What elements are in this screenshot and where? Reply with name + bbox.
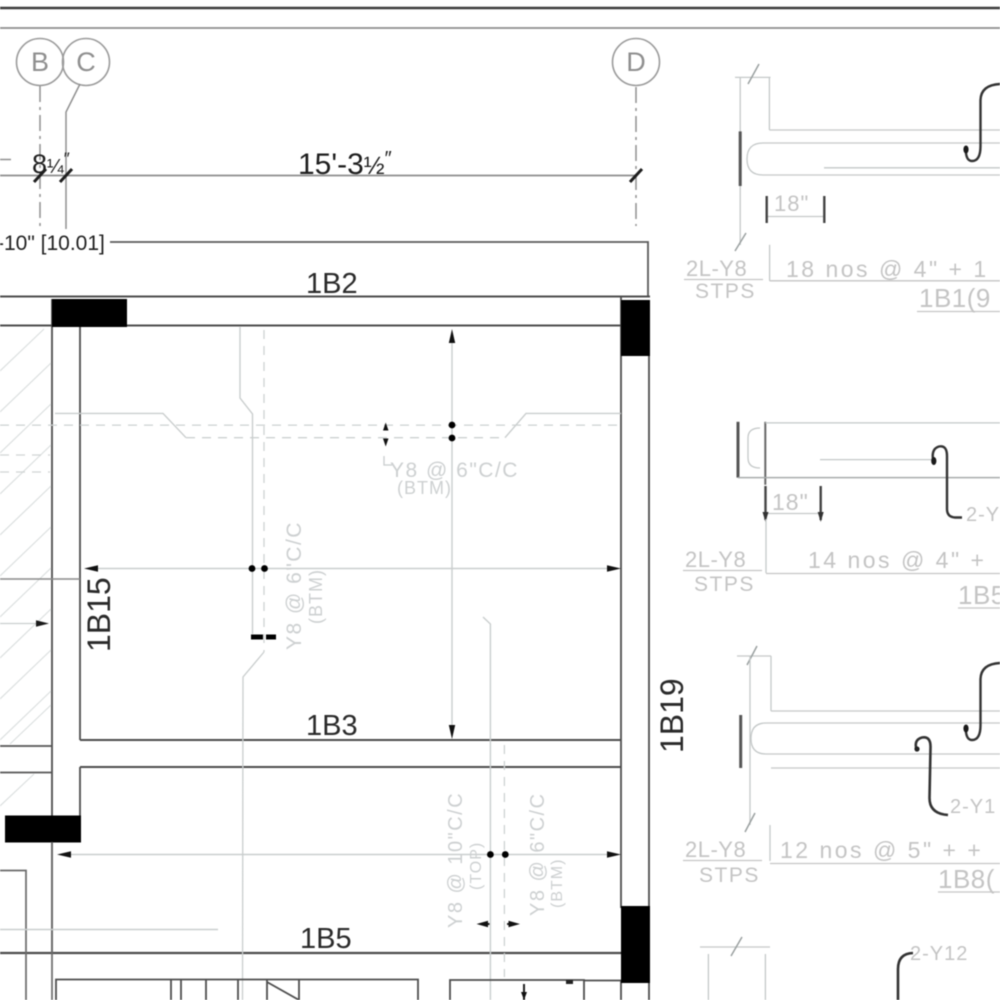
detail 4 witness tick [731, 937, 742, 956]
grid bubble C [63, 39, 110, 86]
svg-text:18": 18" [774, 191, 809, 216]
beam 1B19 right edge lower [648, 981, 650, 1000]
grid line C leader [66, 84, 80, 229]
detail 4 hook bar (dark) [898, 953, 913, 1000]
svg-text:1B5(9: 1B5(9 [958, 580, 1000, 610]
dim tick at B [34, 169, 46, 182]
svg-text:1B1(9: 1B1(9 [919, 283, 991, 313]
grid bubble D [613, 39, 660, 86]
detail 1 leader vertical [769, 245, 771, 281]
detail 3 depth line [749, 656, 751, 825]
beam 1B15 left edge [51, 299, 53, 953]
svg-text:2L-Y8: 2L-Y8 [685, 837, 746, 862]
beam 1B19 right edge [648, 356, 650, 908]
lower-left room corner [0, 871, 26, 1000]
column bottom left (filled) [5, 816, 81, 843]
detail 3 top reinforcement bar outline [751, 723, 1000, 754]
detail 1 witness tick top [748, 64, 759, 84]
slab top bar line horizontal (upper panel) [55, 413, 186, 437]
detail 2 hook bar (dark) [933, 446, 962, 517]
detail 1 beam top line [769, 129, 1000, 131]
detail 3 witness tick bottom [745, 813, 755, 832]
detail 4 witness line top [700, 946, 770, 948]
svg-text:2-Y: 2-Y [966, 504, 1000, 526]
detail 2 support bar left (dark) [737, 422, 740, 478]
beam 1B3 left stub bottom [0, 772, 52, 774]
svg-text:2L-Y8: 2L-Y8 [686, 256, 747, 281]
beam 1B15 right edge [79, 327, 81, 740]
beam 1B2 bottom line [0, 325, 650, 327]
detail 1 second bar line [824, 167, 1000, 169]
bottom wall row right rect [450, 980, 584, 1000]
svg-text:1B15: 1B15 [81, 577, 117, 652]
border line top [0, 7, 1000, 9]
svg-text:D: D [626, 47, 646, 77]
grid bubble B [17, 39, 64, 86]
slab top bar line vertical (upper panel) [240, 327, 253, 634]
grid line B leader [39, 86, 41, 229]
svg-text:1B3: 1B3 [306, 710, 358, 742]
svg-text:15'-3½″: 15'-3½″ [298, 148, 392, 181]
bottom wall row left rect [56, 980, 418, 1000]
stub line left edge [0, 159, 11, 161]
bottom wall row partitions [170, 980, 172, 1000]
dim tick at D [630, 169, 642, 182]
detail 1 stirrup spacing dim 18" [767, 216, 825, 218]
label Y8 @ 6 C/C (BTM) horizontal [384, 456, 392, 465]
slab centerline horizontal dashed (upper panel) [0, 424, 621, 426]
svg-text:14 nos @ 4" +: 14 nos @ 4" + [808, 547, 986, 573]
detail 2 leader vertical [765, 519, 767, 573]
beam 1B3 bottom line [80, 766, 621, 768]
beam 1B15 right edge lower [79, 767, 81, 816]
bottom row down arrow [523, 984, 525, 1000]
detail 3 witness line top [737, 655, 771, 657]
detail 3 hook bar middle (dark) [916, 737, 948, 815]
svg-text:(BTM): (BTM) [306, 569, 326, 624]
detail 2 beam bottom line [738, 477, 1000, 479]
beam 1B19 left edge lower [620, 981, 622, 1000]
svg-text:2-Y1: 2-Y1 [950, 796, 996, 818]
beam 1B3 top line [80, 739, 621, 741]
svg-text:1B8(: 1B8( [938, 864, 995, 894]
column at D grid (top right, filled) [621, 300, 650, 356]
detail 1 beam left edge [768, 77, 770, 130]
detail 3 witness tick top [747, 646, 757, 665]
left area horizontal line [0, 578, 80, 580]
svg-text:Y8 @ 10"C/C: Y8 @ 10"C/C [445, 792, 467, 928]
slab centerline vertical dashed (upper panel) [263, 330, 265, 652]
detail 1 hook bar (dark) [966, 84, 1000, 161]
detail 1 witness line top [735, 76, 771, 78]
beam 1B2 top line [0, 296, 650, 298]
beam 1B5 top line [0, 952, 621, 954]
lower-left wall line [51, 842, 53, 1000]
hatch lines left area [0, 329, 51, 806]
detail 2 stirrup spacing dim 18" [765, 513, 821, 515]
detail 3 hook bar right (dark) [966, 663, 1000, 740]
svg-text:12 nos @ 5" + +: 12 nos @ 5" + + [780, 837, 983, 863]
bottom wall segment to column [584, 980, 621, 982]
svg-text:1B19: 1B19 [654, 678, 690, 753]
detail 2 beam top line [765, 422, 1000, 424]
svg-text:18": 18" [772, 489, 809, 515]
column at B/C grid (top left, filled) [52, 299, 127, 327]
detail 3 beam bottom line [771, 767, 1000, 769]
detail 3 leader vertical [769, 825, 771, 861]
detail 3 support bar (dark) [739, 715, 742, 768]
detail 2 beam left edge (dark) [764, 422, 766, 485]
bar end tick (black double dash) [251, 635, 263, 640]
detail 4 beam left edge [764, 954, 766, 1000]
detail 1 witness tick bottom [735, 233, 746, 251]
paired arrow marks on centerlines [383, 423, 389, 431]
border line inner [0, 27, 1000, 29]
detail 1 depth line [739, 77, 741, 245]
svg-text:18 nos @ 4" + 1: 18 nos @ 4" + 1 [786, 256, 989, 282]
extent line horizontal with arrows (upper panel) [95, 568, 610, 570]
detail 3 beam top line [771, 710, 1000, 712]
svg-text:1B5: 1B5 [300, 923, 352, 955]
dimension line [10.01] [110, 242, 648, 297]
svg-text:2L-Y8: 2L-Y8 [685, 547, 746, 572]
lower panel centerline vertical dashed [503, 745, 505, 977]
svg-text:8¼″: 8¼″ [32, 149, 70, 179]
detail 1 top reinforcement bar outline [747, 143, 1000, 175]
svg-text:C: C [76, 47, 96, 77]
svg-text:STPS: STPS [695, 280, 756, 303]
lower panel bar line vertical [483, 617, 490, 1000]
svg-text:2-Y12: 2-Y12 [910, 943, 968, 965]
extent line vertical with arrows (upper panel) [451, 340, 453, 728]
detail 1 support bar (dark) [739, 131, 742, 186]
beam 1B19 left edge [620, 296, 622, 908]
extent line horizontal with arrows (lower panel) [68, 854, 610, 856]
detail 4 depth line [707, 954, 709, 1000]
beam 1B3 left stub top [0, 745, 52, 747]
detail 2 second bar line [820, 459, 934, 461]
detail 2 top bar end cap [748, 428, 760, 468]
svg-text:STPS: STPS [694, 573, 755, 596]
svg-text:-10" [10.01]: -10" [10.01] [0, 232, 105, 255]
left area bar line with arrow [0, 623, 38, 625]
paired outward arrows lower panel [482, 923, 490, 925]
svg-text:Y8 @ 6"C/C: Y8 @ 6"C/C [527, 792, 549, 916]
svg-text:(BTM): (BTM) [397, 478, 452, 498]
svg-text:(TOP): (TOP) [468, 842, 485, 890]
svg-text:(BTM): (BTM) [549, 859, 566, 908]
svg-text:1B2: 1B2 [306, 268, 358, 300]
centerline jog to lower run [243, 652, 265, 1000]
svg-text:STPS: STPS [699, 864, 760, 887]
bottom wall row N brace [267, 980, 299, 1000]
svg-text:B: B [31, 47, 49, 77]
dimension line top [0, 175, 636, 177]
lower panel top bar line [0, 929, 218, 931]
column bottom right (filled) [621, 906, 650, 983]
dim tick at C [60, 169, 72, 182]
svg-text:Y8 @ 6"C/C: Y8 @ 6"C/C [283, 521, 306, 650]
grid line D leader [635, 87, 637, 226]
detail 3 beam left edge [770, 656, 772, 711]
left area dashed centerlines [0, 454, 50, 456]
bottom wall tick [566, 980, 573, 984]
